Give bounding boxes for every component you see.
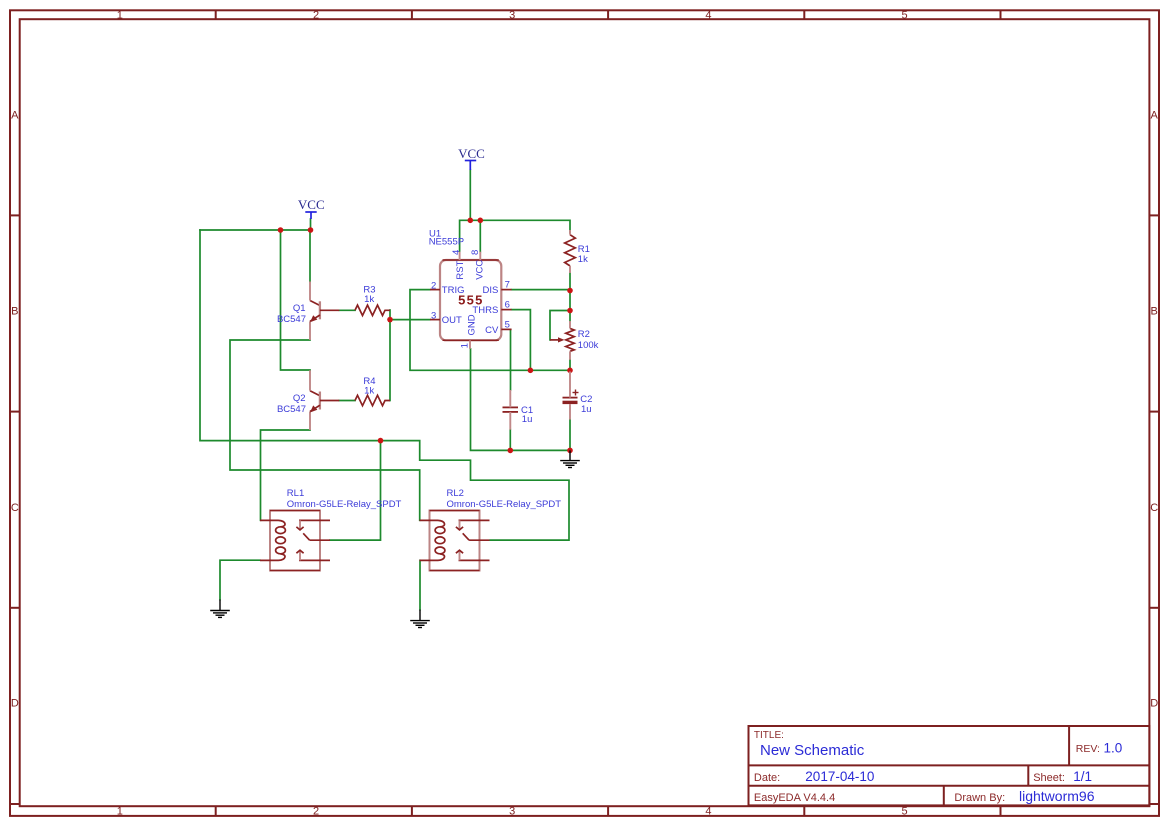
svg-text:1: 1 <box>117 805 123 817</box>
svg-text:4: 4 <box>705 805 711 817</box>
svg-text:VCC: VCC <box>298 197 325 212</box>
svg-text:Drawn By:: Drawn By: <box>954 792 1005 804</box>
svg-text:VCC: VCC <box>475 260 486 280</box>
svg-text:555: 555 <box>458 292 484 307</box>
svg-text:RST: RST <box>455 260 466 279</box>
svg-text:Date:: Date: <box>754 772 780 784</box>
svg-text:Sheet:: Sheet: <box>1033 772 1065 784</box>
svg-text:1/1: 1/1 <box>1073 769 1092 784</box>
svg-text:1.0: 1.0 <box>1104 741 1123 756</box>
svg-text:3: 3 <box>509 805 515 817</box>
svg-text:5: 5 <box>505 319 510 330</box>
svg-text:CV: CV <box>485 325 499 336</box>
svg-text:Q1: Q1 <box>293 303 306 314</box>
svg-text:5: 5 <box>902 9 908 21</box>
svg-text:C: C <box>11 502 19 514</box>
svg-text:1k: 1k <box>364 294 374 305</box>
svg-text:OUT: OUT <box>442 315 462 326</box>
svg-text:EasyEDA V4.4.4: EasyEDA V4.4.4 <box>754 792 835 804</box>
svg-text:2017-04-10: 2017-04-10 <box>805 769 874 784</box>
svg-text:NE555P: NE555P <box>429 237 464 248</box>
svg-text:100k: 100k <box>578 340 599 351</box>
svg-text:2: 2 <box>431 281 436 292</box>
svg-text:4: 4 <box>705 9 711 21</box>
svg-text:New Schematic: New Schematic <box>760 742 865 759</box>
svg-text:5: 5 <box>902 805 908 817</box>
svg-text:1k: 1k <box>578 254 588 265</box>
svg-text:BC547: BC547 <box>277 404 306 415</box>
svg-text:3: 3 <box>509 9 515 21</box>
svg-text:REV:: REV: <box>1076 743 1100 755</box>
svg-text:B: B <box>11 306 18 318</box>
svg-text:1u: 1u <box>522 414 533 425</box>
svg-text:D: D <box>11 698 19 710</box>
svg-text:Q2: Q2 <box>293 393 306 404</box>
svg-text:6: 6 <box>505 300 510 311</box>
svg-text:DIS: DIS <box>482 285 498 296</box>
svg-text:RL1: RL1 <box>287 488 304 499</box>
svg-text:3: 3 <box>431 310 436 321</box>
svg-text:GND: GND <box>467 314 478 335</box>
svg-text:8: 8 <box>470 250 481 255</box>
svg-text:B: B <box>1151 306 1158 318</box>
svg-text:lightworm96: lightworm96 <box>1019 788 1095 804</box>
svg-text:4: 4 <box>451 250 462 255</box>
svg-text:1k: 1k <box>364 386 374 397</box>
svg-text:TITLE:: TITLE: <box>754 730 784 741</box>
svg-text:Omron-G5LE-Relay_SPDT: Omron-G5LE-Relay_SPDT <box>447 499 562 510</box>
svg-text:VCC: VCC <box>458 146 485 161</box>
svg-text:D: D <box>1150 698 1158 710</box>
svg-text:1: 1 <box>459 343 470 348</box>
svg-text:A: A <box>1151 110 1159 122</box>
svg-text:Omron-G5LE-Relay_SPDT: Omron-G5LE-Relay_SPDT <box>287 499 402 510</box>
svg-text:BC547: BC547 <box>277 314 306 325</box>
svg-text:R2: R2 <box>578 329 590 340</box>
svg-text:2: 2 <box>313 805 319 817</box>
svg-text:2: 2 <box>313 9 319 21</box>
svg-text:A: A <box>11 110 19 122</box>
svg-text:RL2: RL2 <box>447 488 464 499</box>
svg-text:C: C <box>1150 502 1158 514</box>
svg-text:1u: 1u <box>581 404 592 415</box>
svg-text:7: 7 <box>505 279 510 290</box>
svg-text:1: 1 <box>117 9 123 21</box>
